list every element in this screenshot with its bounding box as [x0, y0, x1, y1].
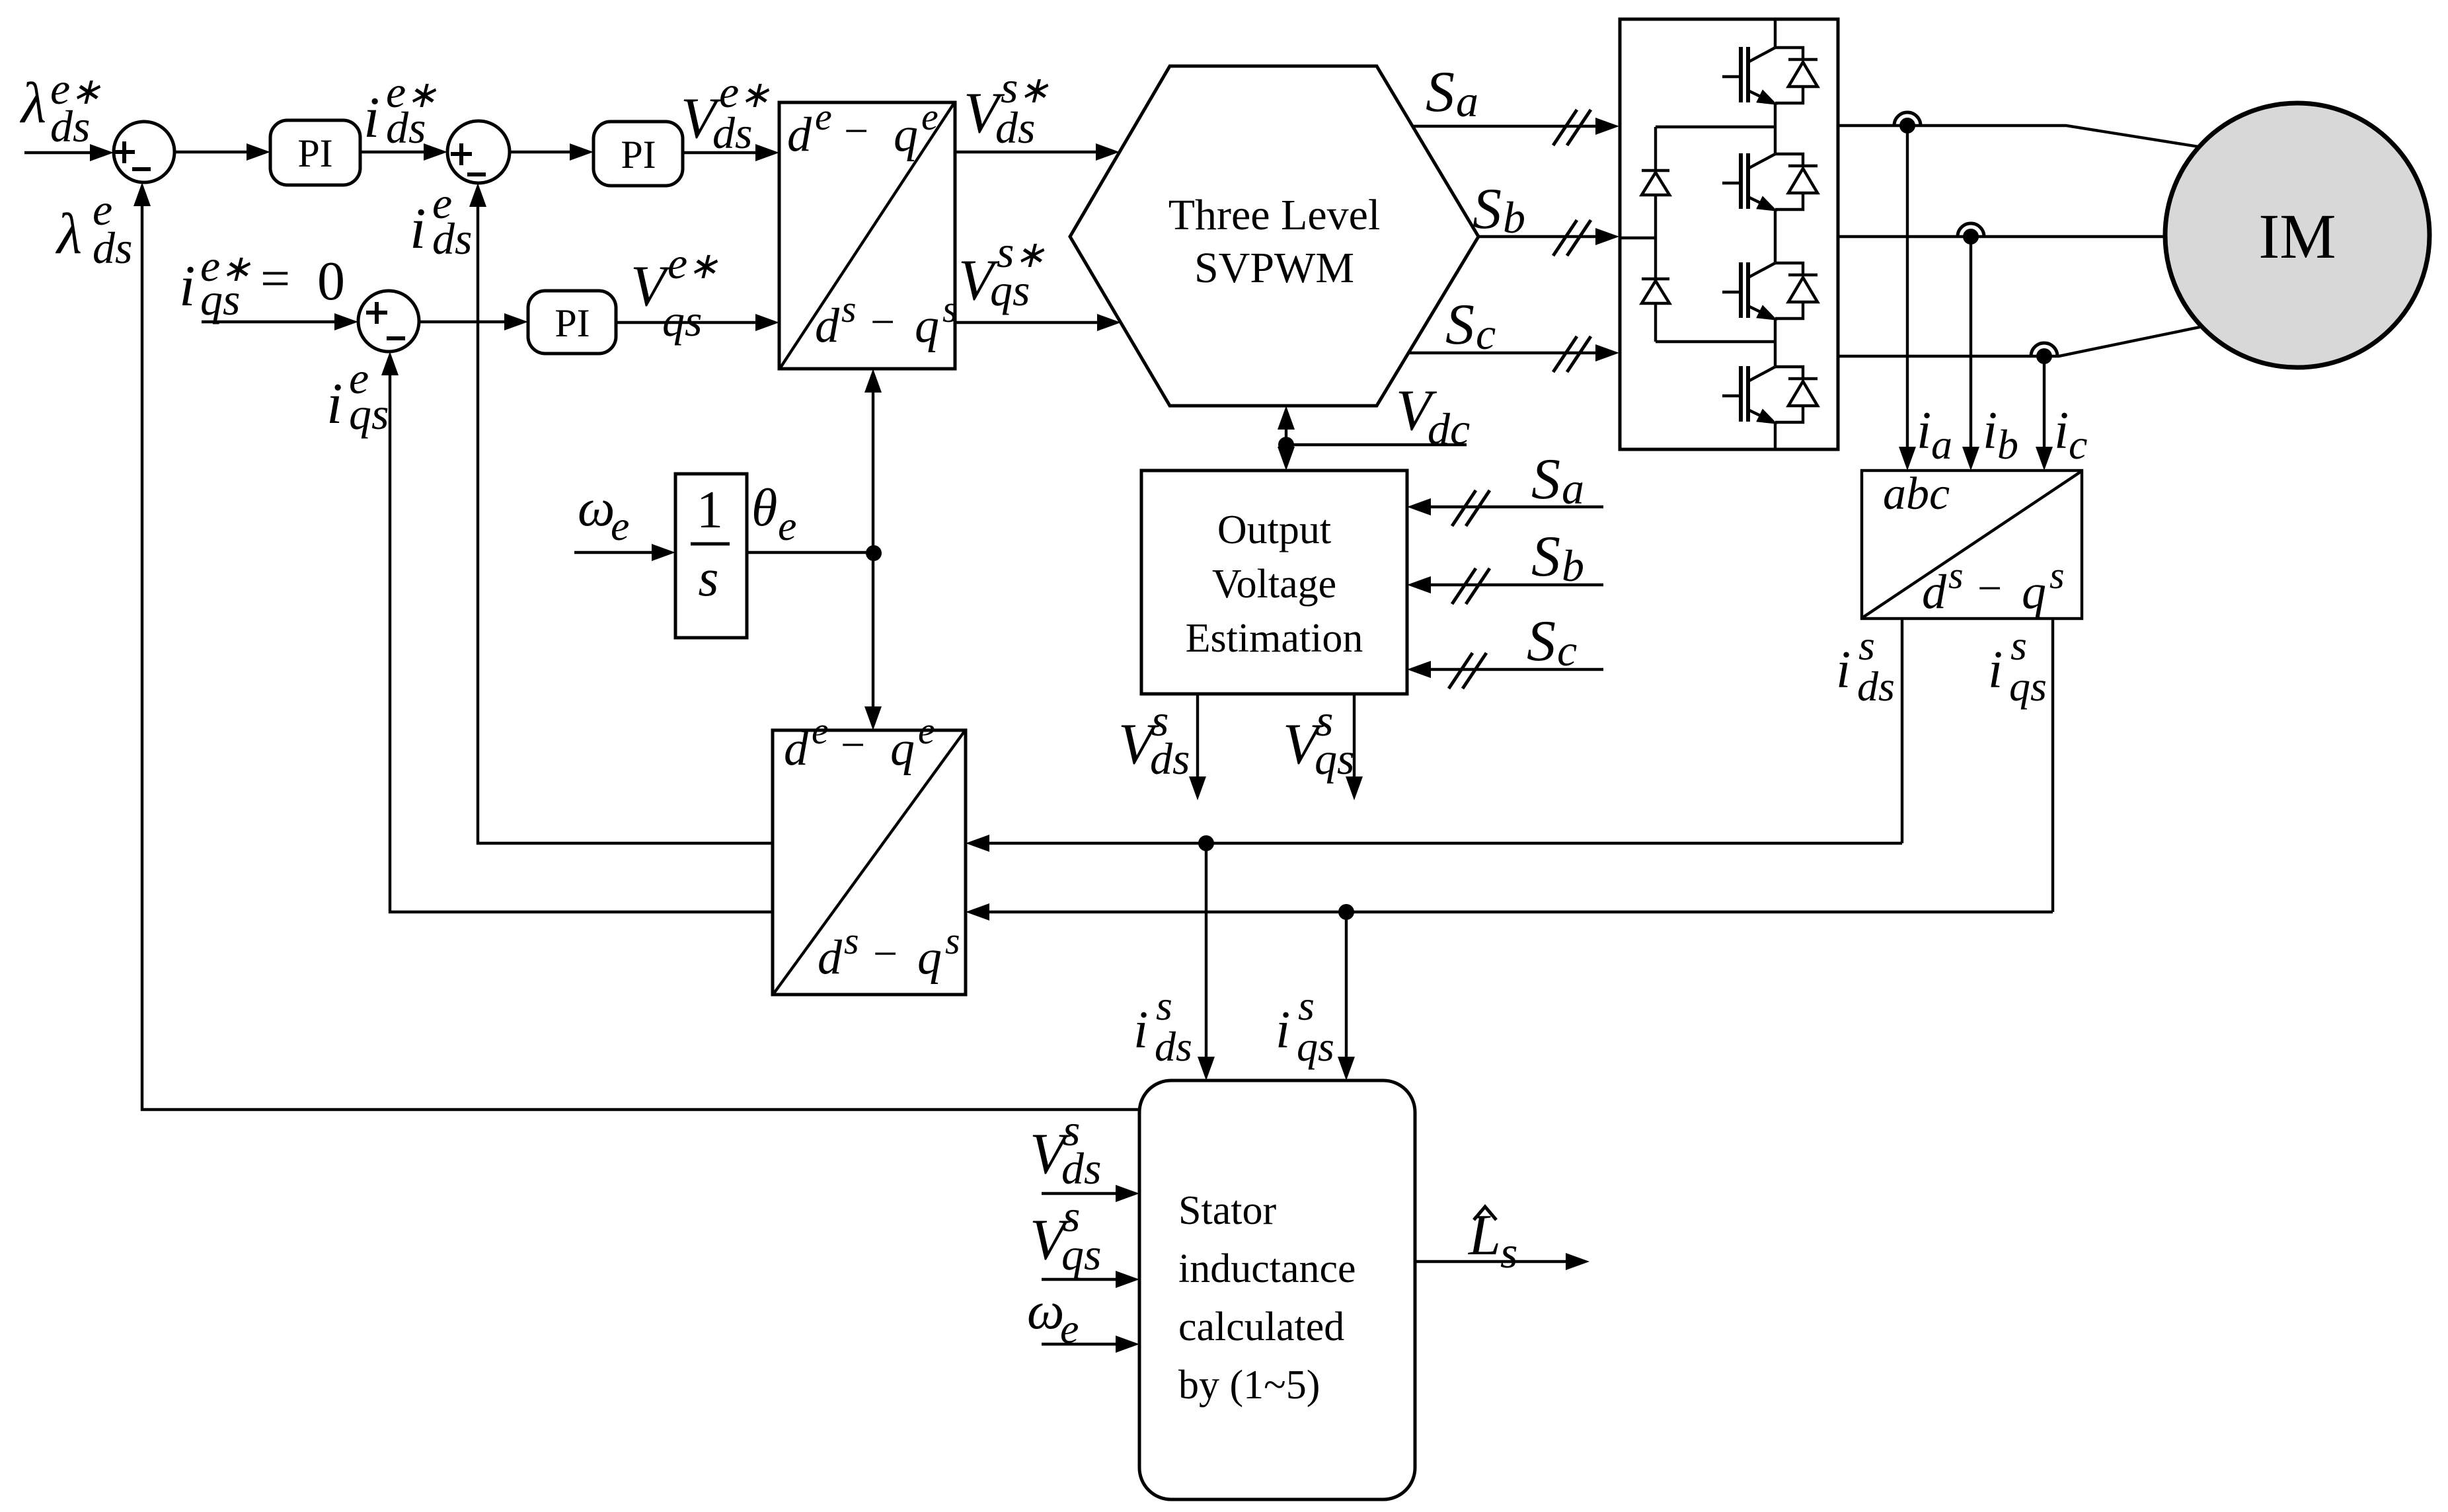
wire omega_e into integrator	[574, 544, 675, 561]
summing junction S2	[447, 121, 510, 183]
svg-text:s: s	[1858, 622, 1875, 669]
svg-text:qs: qs	[990, 265, 1030, 315]
svg-text:PI: PI	[555, 301, 590, 345]
block PI3	[528, 291, 616, 354]
wire phase C output line	[1838, 326, 2203, 356]
wire ic measurement down to abc block	[2036, 356, 2053, 471]
svg-text:e: e	[921, 95, 938, 138]
svg-text:−: −	[841, 721, 865, 769]
svg-text:ω: ω	[1027, 1282, 1064, 1340]
node theta_e label	[751, 479, 796, 549]
node Sc label at OVE	[1527, 609, 1577, 675]
svg-text:qs: qs	[349, 389, 389, 439]
svg-text:s: s	[945, 919, 960, 962]
svg-text:−: −	[870, 298, 895, 346]
diode D2 clamping	[1642, 279, 1669, 303]
svg-text:b: b	[1997, 421, 2018, 468]
node i_qs_e_star = 0 input label	[179, 241, 345, 324]
node i_qs_s label below abc	[1988, 622, 2047, 710]
svg-text:d: d	[815, 299, 840, 353]
svg-text:c: c	[1476, 309, 1496, 359]
svg-text:q: q	[890, 722, 915, 776]
svg-text:d: d	[1922, 565, 1947, 619]
node omega_e label at stator input	[1027, 1282, 1079, 1352]
svg-text:e: e	[918, 709, 935, 752]
node V_qs_s label at OVE output	[1283, 695, 1354, 784]
wire PI3 to dq1 block with V_qs_e_star	[616, 314, 779, 331]
svg-text:PI: PI	[621, 133, 656, 176]
node phase A current sensor	[1894, 112, 1921, 133]
svg-text:qs: qs	[662, 295, 702, 346]
node V_qs_s_star label	[958, 227, 1045, 315]
block three-level NPC inverter	[1620, 19, 1838, 449]
block PI1	[270, 120, 360, 185]
wire Vdc double arrow between hexagon and OVE	[1278, 406, 1295, 471]
node phase C current sensor	[2031, 343, 2057, 364]
wire Vdc horizontal stub	[1286, 443, 1467, 446]
wire i_qs_e output of dq2 to junction S3	[381, 352, 773, 912]
svg-text:PI: PI	[297, 132, 332, 175]
wire Sb hexagon to inverter	[1478, 220, 1619, 256]
svg-text:a: a	[1931, 421, 1952, 468]
node ic label	[2054, 402, 2087, 468]
svg-text:abc: abc	[1883, 469, 1950, 519]
block integrator 1/s	[675, 474, 747, 638]
svg-text:θ: θ	[751, 479, 777, 537]
block IM induction motor	[2165, 103, 2429, 367]
wire PI1 to summing junction S2	[360, 143, 447, 161]
svg-text:i: i	[1133, 1001, 1148, 1059]
node i_qs_e label	[326, 353, 389, 439]
svg-text:s: s	[942, 287, 958, 330]
svg-text:b: b	[1562, 541, 1584, 591]
svg-text:i: i	[1988, 641, 2003, 699]
svg-text:i: i	[1917, 402, 1931, 460]
node V_ds_e_star label	[681, 67, 770, 158]
svg-text:ds: ds	[386, 102, 426, 153]
svg-text:ds: ds	[50, 101, 90, 151]
svg-text:ds: ds	[712, 108, 752, 158]
svg-text:ds: ds	[1150, 734, 1190, 784]
wire V_ds_s output of OVE	[1189, 694, 1206, 800]
svg-text:−: −	[844, 107, 868, 155]
node i_ds_e_star label	[363, 67, 437, 153]
wire i_ds_s branch down into stator block	[1198, 843, 1215, 1080]
block dq2 stationary to rotating transformation	[773, 709, 966, 995]
wire S3 to PI3	[419, 313, 528, 330]
wire i_qs* input into summing junction S3	[202, 313, 358, 330]
svg-text:d: d	[818, 930, 843, 985]
wire clamp branch top	[1656, 126, 1775, 128]
wire S1 to PI1	[174, 143, 270, 161]
diode D1 clamping	[1642, 170, 1669, 195]
wire omega_e into stator block	[1042, 1336, 1139, 1353]
node junction dot i_qs_s branch	[1338, 904, 1354, 920]
node i_ds_e label	[410, 178, 472, 264]
svg-text:λ: λ	[55, 202, 82, 266]
svg-text:i: i	[410, 197, 426, 261]
wire V_qs_s output of OVE	[1346, 694, 1363, 800]
svg-text:d: d	[784, 722, 809, 776]
wire V_qs_s into stator block	[1042, 1271, 1139, 1288]
wire dq1 to hexagon V_ds_s_star	[955, 143, 1120, 161]
svg-text:−: −	[873, 930, 898, 978]
svg-text:Voltage: Voltage	[1212, 562, 1336, 607]
node L_s hat label	[1467, 1203, 1517, 1277]
svg-text:ds: ds	[1155, 1023, 1192, 1070]
svg-text:=: =	[260, 250, 290, 308]
wire lambda* input into summing junction S1	[24, 144, 114, 161]
wire theta_e from integrator to junction	[747, 545, 882, 561]
svg-text:q: q	[2022, 565, 2046, 619]
svg-text:q: q	[894, 108, 918, 162]
node i_ds_s label below abc	[1836, 622, 1895, 710]
svg-text:−: −	[1977, 564, 2002, 613]
node Sa label at OVE	[1531, 447, 1584, 513]
wire i_ds_s feedback to dq2	[966, 835, 1902, 852]
svg-text:IM: IM	[2258, 201, 2336, 272]
wire Sc into OVE	[1407, 653, 1603, 689]
svg-text:1: 1	[697, 481, 723, 539]
wire clamp branch vertical	[1654, 127, 1657, 342]
wire inverter IGBT chain	[1774, 19, 1777, 449]
node ib label	[1983, 402, 2018, 468]
transistor IGBT Q1	[1722, 47, 1817, 112]
node ia label	[1917, 402, 1952, 468]
wire dq1 to hexagon V_qs_s_star	[955, 314, 1121, 331]
svg-text:e: e	[778, 502, 796, 549]
svg-text:e∗: e∗	[668, 238, 718, 288]
svg-text:SVPWM: SVPWM	[1194, 244, 1354, 292]
svg-text:ds: ds	[1857, 663, 1895, 710]
node i_ds_s label above stator block	[1133, 982, 1192, 1070]
wire phase B output line	[1838, 235, 2166, 238]
svg-text:b: b	[1503, 192, 1525, 243]
svg-text:i: i	[1983, 402, 1997, 460]
wire theta_e down into dq2 top	[864, 553, 882, 730]
block PI2	[593, 122, 683, 186]
svg-text:λ: λ	[19, 71, 46, 135]
svg-text:Output: Output	[1217, 508, 1331, 552]
svg-text:inductance: inductance	[1178, 1246, 1356, 1291]
wire i_ds_e output of dq2 to junction S2	[469, 183, 773, 843]
svg-text:Stator: Stator	[1178, 1188, 1276, 1233]
block Output Voltage Estimation	[1141, 471, 1407, 694]
svg-text:s: s	[1948, 554, 1964, 597]
block abc to dq stationary transformation	[1862, 469, 2082, 619]
node phase B current sensor	[1958, 223, 1984, 245]
node V_qs_e_star label	[631, 238, 718, 346]
wire ia measurement down to abc block	[1899, 126, 1916, 471]
svg-text:s: s	[698, 549, 718, 607]
svg-text:q: q	[917, 930, 942, 985]
svg-text:q: q	[915, 299, 939, 353]
svg-text:ds: ds	[93, 223, 132, 273]
svg-text:ds: ds	[432, 213, 472, 264]
svg-text:e: e	[815, 95, 832, 138]
svg-text:s: s	[844, 919, 859, 962]
svg-text:qs: qs	[200, 274, 240, 324]
svg-text:a: a	[1562, 463, 1584, 513]
svg-text:i: i	[1276, 1001, 1290, 1059]
svg-text:i: i	[363, 86, 379, 150]
summing junction S1	[114, 122, 174, 182]
svg-text:i: i	[326, 372, 342, 436]
wire i_ds_s from abc block down	[1901, 619, 1903, 843]
svg-text:S: S	[1527, 609, 1556, 673]
wire V_ds_s into stator block	[1042, 1185, 1139, 1202]
svg-text:qs: qs	[1297, 1023, 1334, 1070]
svg-text:S: S	[1531, 525, 1560, 589]
node Vdc label	[1396, 379, 1470, 454]
wire i_qs_s branch down into stator block	[1338, 912, 1355, 1080]
svg-text:L: L	[1467, 1203, 1501, 1267]
svg-text:s: s	[1298, 982, 1315, 1029]
node Sa label	[1426, 60, 1478, 126]
wire Sb into OVE	[1407, 568, 1603, 604]
wire i_qs_s from abc block down	[2051, 619, 2054, 912]
svg-text:S: S	[1473, 177, 1502, 241]
wire phase A output line	[1838, 126, 2203, 147]
svg-text:Estimation: Estimation	[1186, 616, 1363, 661]
svg-text:qs: qs	[1315, 734, 1354, 784]
svg-text:dc: dc	[1428, 404, 1470, 454]
svg-text:s: s	[2049, 554, 2065, 597]
node Sb label	[1473, 177, 1525, 243]
node Sc label	[1445, 293, 1496, 359]
node junction dot i_ds_s branch	[1198, 835, 1214, 851]
wire Sc hexagon to inverter	[1409, 336, 1619, 372]
svg-text:i: i	[179, 254, 195, 319]
node V_ds_s_star label	[964, 62, 1049, 153]
svg-text:0: 0	[317, 250, 345, 312]
svg-text:s: s	[1156, 982, 1172, 1029]
svg-text:ω: ω	[578, 479, 615, 537]
node lambda_ds_e_star input label	[19, 63, 101, 151]
svg-text:s: s	[2010, 622, 2027, 669]
svg-text:S: S	[1426, 60, 1455, 124]
svg-text:Three Level: Three Level	[1168, 191, 1381, 239]
node omega_e input label	[578, 479, 629, 549]
wire lambda_ds_e feedback from stator block to junction S1	[134, 182, 1139, 1110]
wire theta_e up into dq1 bottom	[864, 369, 882, 553]
svg-text:i: i	[1836, 641, 1851, 699]
block Three Level SVPWM hexagon	[1070, 66, 1478, 406]
node i_qs_s label above stator block	[1276, 982, 1334, 1070]
svg-text:a: a	[1456, 76, 1478, 126]
wire neutral input stub	[1620, 237, 1656, 239]
node Sb label at OVE	[1531, 525, 1584, 591]
svg-text:e: e	[812, 709, 829, 752]
svg-text:s: s	[1500, 1227, 1517, 1277]
wire Sa into OVE	[1407, 490, 1603, 526]
svg-text:e: e	[611, 502, 629, 549]
svg-text:by (1~5): by (1~5)	[1178, 1363, 1320, 1408]
node V_qs_s label at stator input	[1030, 1191, 1101, 1279]
summing junction S3	[358, 291, 419, 352]
wire Sa hexagon to inverter	[1413, 110, 1619, 145]
wire S2 to PI2	[510, 143, 593, 161]
block dq1 rotating to stationary transformation	[779, 95, 958, 369]
wire clamp branch bottom	[1656, 340, 1775, 343]
wire ib measurement down to abc block	[1962, 237, 1979, 471]
svg-text:qs: qs	[2009, 663, 2047, 710]
block stator inductance calculator	[1139, 1080, 1415, 1499]
svg-text:qs: qs	[1061, 1229, 1101, 1279]
wire L_s estimate output	[1415, 1253, 1589, 1270]
svg-text:ds: ds	[1061, 1143, 1101, 1193]
transistor IGBT Q2	[1722, 153, 1817, 218]
svg-text:calculated: calculated	[1178, 1304, 1344, 1349]
node lambda_ds_e feedback label	[55, 184, 132, 273]
svg-text:s: s	[841, 287, 857, 330]
wire i_qs_s feedback to dq2	[966, 903, 2053, 921]
transistor IGBT Q3	[1722, 262, 1817, 327]
svg-text:S: S	[1445, 293, 1474, 357]
transistor IGBT Q4	[1722, 366, 1817, 431]
svg-text:S: S	[1531, 447, 1560, 511]
svg-text:ds: ds	[995, 102, 1035, 153]
svg-text:c: c	[1557, 625, 1577, 675]
wire PI2 to dq1 block with V_ds_e_star	[683, 144, 779, 161]
svg-text:i: i	[2054, 402, 2069, 460]
svg-text:d: d	[787, 108, 812, 162]
node V_ds_s label at stator input	[1030, 1105, 1101, 1193]
svg-text:c: c	[2069, 421, 2087, 468]
node V_ds_s label at OVE output	[1118, 695, 1190, 784]
